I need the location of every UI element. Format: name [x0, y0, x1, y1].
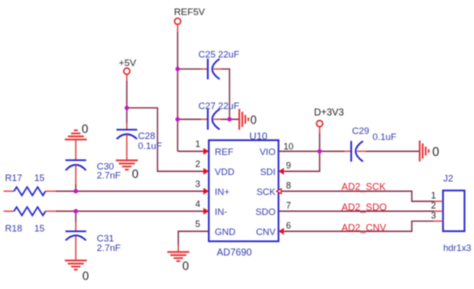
pin arrow 4 — [203, 208, 208, 215]
svg-text:15: 15 — [34, 172, 44, 183]
svg-text:0: 0 — [82, 269, 89, 283]
svg-text:CNV: CNV — [256, 227, 276, 237]
pin arrow 3 — [203, 188, 208, 195]
svg-text:GND: GND — [215, 227, 236, 237]
wire IN- — [56, 210, 205, 212]
wire IN+ — [56, 190, 205, 192]
resistor R17 — [4, 172, 56, 195]
svg-text:8: 8 — [286, 181, 291, 191]
junction D+3V3/VIO — [317, 149, 321, 153]
svg-text:SCK: SCK — [256, 187, 276, 197]
svg-text:R18: R18 — [5, 223, 22, 234]
junction IN-/C31 — [74, 209, 78, 213]
pin arrow 6 — [279, 228, 284, 235]
wire REF5V vertical — [177, 32, 179, 151]
wire C27 left — [178, 118, 201, 120]
pin arrow 9 — [279, 168, 284, 175]
junction IN+/C30 — [74, 189, 78, 193]
wire C25 right down — [221, 69, 230, 119]
svg-text:6: 6 — [286, 221, 291, 231]
svg-text:2.7nF: 2.7nF — [97, 169, 121, 180]
capacitor C27 — [198, 100, 239, 130]
ground 0 (below C31) — [65, 261, 87, 270]
capacitor C30 — [65, 140, 121, 185]
capacitor C25 — [198, 48, 239, 79]
capacitor C29 — [345, 125, 397, 162]
svg-text:0: 0 — [182, 259, 189, 273]
svg-text:5: 5 — [195, 219, 200, 229]
svg-text:U10: U10 — [249, 131, 268, 142]
svg-text:4: 4 — [195, 199, 200, 209]
wire D+3V3 down — [319, 133, 321, 151]
svg-text:0: 0 — [82, 122, 89, 136]
wire SDI pin9 — [284, 151, 320, 171]
svg-text:REF5V: REF5V — [174, 7, 206, 18]
pin arrow 2 — [203, 168, 208, 175]
svg-text:0.1uF: 0.1uF — [373, 131, 397, 142]
wire VIO pin10 — [279, 150, 320, 152]
wire +5V branch to VDD — [127, 108, 205, 171]
power +5V — [119, 58, 137, 81]
connector J2 — [431, 172, 471, 253]
svg-text:C29: C29 — [352, 125, 369, 136]
junction C25-C27 right — [227, 117, 231, 121]
svg-text:SDI: SDI — [260, 167, 276, 177]
wire C25 left — [178, 68, 201, 70]
wire AD2_SCK — [281, 191, 433, 201]
op IC U10 AD7690 — [209, 131, 279, 258]
wire AD2_CNV — [284, 221, 434, 231]
svg-text:0: 0 — [432, 145, 439, 159]
ground 0 (pin5) — [167, 252, 189, 261]
svg-text:22uF: 22uF — [218, 48, 240, 59]
svg-text:R17: R17 — [5, 172, 22, 183]
junction REF5V/C27 — [175, 117, 179, 121]
svg-text:VDD: VDD — [215, 167, 235, 177]
svg-text:AD2_SCK: AD2_SCK — [342, 182, 387, 193]
wire C31 from IN- — [75, 211, 77, 222]
ground 0 (right of C27) — [239, 109, 248, 130]
svg-text:REF: REF — [215, 147, 234, 157]
svg-text:0.1uF: 0.1uF — [138, 140, 162, 151]
svg-text:2.7nF: 2.7nF — [97, 242, 121, 253]
pin arrow 1 — [203, 148, 208, 155]
svg-text:9: 9 — [286, 161, 291, 171]
capacitor C31 — [65, 222, 121, 260]
svg-text:2: 2 — [431, 200, 436, 210]
svg-text:AD7690: AD7690 — [217, 248, 253, 259]
svg-text:1: 1 — [431, 191, 436, 201]
svg-text:VIO: VIO — [260, 147, 276, 157]
svg-text:D+3V3: D+3V3 — [314, 107, 344, 118]
ground 0 (below C28) — [116, 160, 138, 169]
svg-text:hdr1x3: hdr1x3 — [443, 243, 471, 253]
wire C30 to IN+ — [75, 184, 77, 191]
capacitor C28 — [116, 123, 162, 160]
ground 0 (right of C29) — [420, 141, 429, 162]
svg-text:AD2_CNV: AD2_CNV — [342, 223, 387, 234]
wire C27 right — [221, 118, 239, 120]
svg-text:C25: C25 — [198, 48, 215, 59]
pin arrow 8 (hollow) — [277, 189, 282, 194]
svg-text:IN-: IN- — [215, 207, 227, 217]
svg-text:7: 7 — [286, 201, 291, 211]
power D+3V3 — [314, 107, 344, 133]
junction +5V/C28 — [125, 106, 129, 110]
svg-text:+5V: +5V — [119, 58, 137, 69]
wire +5V down — [126, 81, 128, 123]
svg-text:J2: J2 — [443, 172, 453, 183]
svg-text:22uF: 22uF — [218, 100, 240, 111]
wire REF5V to pin1 — [178, 150, 205, 152]
svg-text:2: 2 — [195, 159, 200, 169]
svg-text:SDO: SDO — [255, 207, 275, 217]
power REF5V — [174, 7, 206, 32]
svg-text:0: 0 — [132, 167, 139, 181]
svg-text:15: 15 — [34, 223, 44, 234]
svg-text:10: 10 — [284, 141, 294, 151]
svg-text:1: 1 — [195, 139, 200, 149]
wire GND pin5 — [178, 231, 209, 245]
svg-text:C27: C27 — [198, 100, 215, 111]
svg-text:3: 3 — [195, 179, 200, 189]
svg-text:AD2_SDO: AD2_SDO — [342, 203, 388, 214]
svg-text:0: 0 — [250, 115, 256, 127]
wire C29 right — [366, 150, 419, 152]
svg-text:IN+: IN+ — [215, 187, 230, 197]
ground 0 (above C30, inverted) — [65, 130, 87, 139]
wire to C29 — [320, 150, 345, 152]
resistor R18 — [4, 207, 56, 234]
svg-text:3: 3 — [431, 210, 436, 220]
wire AD2_SDO — [279, 210, 434, 212]
junction REF5V/C25 — [175, 67, 179, 71]
